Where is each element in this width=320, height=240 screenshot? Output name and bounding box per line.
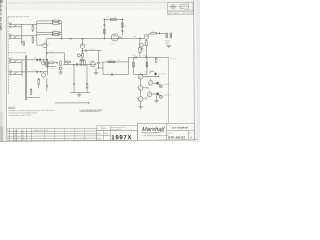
wire tone feed — [139, 38, 141, 57]
wire to mix resistors 2 — [37, 23, 53, 25]
node bus-v2a — [82, 38, 83, 39]
resistor R7 — [52, 30, 60, 33]
potentiometer VR1 — [138, 72, 150, 79]
wire ch2 collect — [21, 60, 23, 76]
next assy strip — [96, 126, 137, 131]
tube V2a — [80, 44, 87, 48]
tube V2b — [110, 34, 121, 45]
capacitor C4 — [103, 25, 105, 26]
chassis dashed line vertical — [7, 17, 9, 94]
capacitor C6 — [132, 55, 136, 59]
frame left border — [5, 0, 8, 130]
resistor R8 — [52, 34, 60, 36]
wire cap drop — [73, 65, 75, 84]
do not scale strip — [167, 11, 193, 15]
wire V3 cathode — [145, 39, 147, 41]
resistor R6 — [52, 23, 60, 25]
node bus-tone — [139, 38, 140, 39]
revision table — [7, 128, 97, 140]
resistor R11 — [104, 17, 123, 21]
resistor R9 — [47, 62, 57, 64]
channel2 bus double line — [25, 55, 26, 100]
wire jack gnd — [156, 96, 158, 100]
wire mid rail — [63, 64, 95, 66]
resistor R10 — [82, 53, 84, 57]
wire V2 left drop — [103, 19, 105, 38]
wire C3 drop — [97, 51, 99, 62]
resistor R12 — [104, 29, 106, 34]
wire V2a out — [82, 50, 84, 52]
jack J2 — [8, 34, 21, 39]
frame right border — [193, 0, 196, 141]
wire ch2 riser — [46, 60, 48, 75]
potentiometer VR6 — [91, 60, 96, 66]
wire V1 out rail — [47, 52, 65, 54]
wire VR1 to output — [143, 75, 159, 77]
resistor R27 — [108, 59, 115, 62]
bottom frame line — [0, 140, 197, 142]
jack J3 — [9, 58, 26, 63]
wire gnd stub — [55, 102, 89, 103]
stray value labels — [50, 16, 161, 73]
resistor R16 — [146, 41, 148, 46]
ground GND7 — [58, 72, 62, 74]
jack J4 — [9, 70, 26, 75]
label caps — [165, 40, 169, 44]
resistor R5 — [52, 18, 60, 21]
ground GND10 — [154, 100, 158, 102]
capacitor C20 — [139, 47, 145, 52]
title block — [137, 123, 194, 140]
main HT bus wire — [47, 37, 144, 39]
ground GND4 — [138, 106, 142, 108]
node bus-left — [61, 38, 62, 39]
wire VR3 to output — [143, 97, 148, 99]
wire to mix resistors top — [37, 20, 53, 22]
resistor R1 — [32, 24, 36, 32]
resistor R21 — [64, 59, 70, 64]
wire ch2 bottom rail — [27, 96, 40, 98]
potentiometer VR2 — [137, 85, 150, 90]
wire V1 drop — [46, 39, 48, 63]
wire V3 out — [145, 45, 147, 57]
wire ch2 stub — [47, 65, 55, 67]
potentiometer VR5 — [42, 72, 46, 77]
jack J7 — [59, 61, 62, 72]
capacitor C17 — [139, 43, 145, 48]
capacitor C1 — [37, 58, 41, 61]
frame faint right inner line — [196, 0, 199, 142]
wire C13 down — [97, 64, 99, 68]
capacitor C2 — [43, 61, 45, 64]
wire ch1 collect — [21, 24, 23, 44]
capacitor C7 — [143, 55, 147, 59]
capacitor C19 — [121, 30, 123, 31]
wire V1 grid — [37, 44, 43, 46]
wire to mix resistors 4 — [37, 34, 53, 36]
capacitor C14 — [46, 78, 47, 91]
wire V1 cathode gnd — [46, 63, 48, 65]
wire VR2 to output — [143, 87, 148, 89]
jack J6 — [152, 92, 171, 98]
node ch2-a — [47, 59, 48, 60]
wire mix out 3 — [59, 31, 61, 33]
projection symbol box — [167, 2, 193, 11]
capacitor C9 — [33, 69, 41, 73]
tube V1 — [43, 43, 51, 48]
wire gnd drop — [95, 68, 97, 72]
wire to mix resistors 3 — [37, 31, 53, 33]
wire loop right — [127, 57, 129, 74]
ground GND2 — [80, 57, 84, 61]
wire loop left — [102, 62, 104, 74]
wire mix out 2 — [59, 22, 61, 24]
resistor R23 — [84, 60, 86, 65]
potentiometer VR9 — [147, 90, 152, 96]
wire VR1-VR2 — [140, 79, 142, 85]
resistor R20 — [38, 79, 40, 89]
wire VR2-VR3 — [140, 90, 142, 96]
wire tone mid rail — [134, 73, 147, 75]
part number box — [96, 130, 137, 140]
wire gnd rail — [70, 92, 90, 94]
capacitor C16 — [169, 30, 172, 38]
wire tone top rail — [128, 56, 168, 58]
resistor R15 — [151, 30, 166, 34]
wire loop bottom — [103, 73, 128, 75]
node V1a — [46, 52, 47, 53]
ground GND1 — [45, 65, 49, 67]
wire tone left branch — [132, 57, 134, 74]
wire ch2 mid — [27, 71, 48, 73]
wire ch2 top — [27, 59, 48, 61]
capacitor C13 — [97, 62, 104, 64]
jack J1 — [8, 22, 21, 27]
node mid-a — [73, 64, 74, 65]
resistor R2 — [32, 36, 36, 44]
resistor R24 — [86, 83, 88, 92]
page edge shading — [0, 0, 2, 142]
wire J2 to R2 — [22, 35, 37, 37]
capacitor C8 — [33, 57, 41, 61]
wire V1 out drop — [63, 53, 65, 65]
resistor R25 — [21, 40, 24, 45]
capacitor C18 — [77, 54, 81, 57]
resistor R22 — [79, 58, 82, 66]
wire loop top — [103, 61, 128, 63]
wire V2 right drop — [121, 19, 123, 35]
jack J5 — [153, 82, 171, 88]
potentiometer VR8 — [148, 79, 153, 85]
resistor R13 — [121, 23, 123, 28]
tube V3 — [144, 33, 150, 39]
wire V2b to right drop — [118, 36, 122, 38]
wire V2a cathode down — [82, 48, 83, 53]
wire ch1 junction — [36, 21, 38, 45]
node bus-v2 — [104, 38, 105, 39]
capacitor C12 — [111, 73, 112, 76]
wire output drop — [167, 57, 169, 123]
wire C13 to loop — [98, 67, 103, 70]
marshall logo — [141, 127, 165, 133]
resistor R19 — [155, 58, 157, 62]
wire mix out top — [59, 20, 61, 22]
wire VR3 gnd — [140, 101, 142, 106]
potentiometer VR4 — [42, 60, 46, 65]
resistor R26 — [30, 89, 32, 94]
wire bus to V2a — [81, 39, 83, 44]
capacitor C10 — [77, 63, 78, 66]
ground GND9 — [94, 73, 98, 75]
capacitor C3 — [85, 49, 86, 52]
potentiometer VR3 — [137, 96, 149, 101]
projection symbol cone — [179, 4, 189, 10]
wire mix out 4 — [59, 34, 61, 36]
node bus-v1 — [70, 38, 71, 39]
capacitor C5 — [165, 31, 168, 39]
wire drop2 — [86, 65, 88, 83]
switch S1 — [150, 71, 167, 75]
node ch2-b — [47, 66, 48, 67]
resistor R17 — [133, 62, 135, 67]
wire J1 to R1 — [22, 23, 37, 25]
wire mix bus vertical — [60, 21, 62, 39]
chassis dashed line top — [8, 16, 30, 18]
wire V2 top rail — [104, 18, 123, 20]
capacitor C11 — [73, 84, 75, 93]
ground GND8 — [166, 45, 170, 47]
ground GND5 — [77, 93, 81, 97]
wire C3 right — [87, 49, 102, 51]
wire tone right branch — [146, 57, 148, 74]
ground GND3 — [139, 48, 143, 50]
frame top border — [6, 1, 193, 4]
chassis dashed line mid — [8, 52, 26, 54]
resistor R18 — [146, 62, 148, 67]
projection symbol circle — [170, 5, 177, 9]
